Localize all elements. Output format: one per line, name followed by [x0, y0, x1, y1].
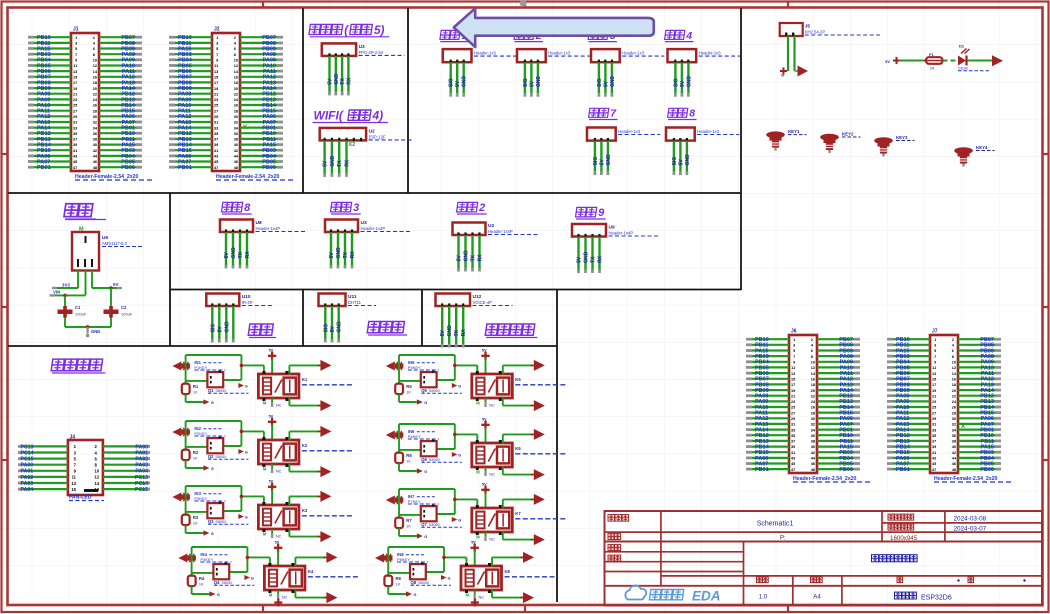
- ch4 wire to NO output port: [295, 557, 326, 566]
- svg-text:15: 15: [932, 377, 936, 381]
- ch8 output port arrow COM: [520, 592, 534, 603]
- svg-text:25: 25: [932, 406, 936, 410]
- svg-text:19: 19: [73, 87, 77, 91]
- header 红外 (1x4): [206, 294, 271, 343]
- svg-text:5V: 5V: [323, 160, 329, 167]
- svg-text:1: 1: [934, 338, 936, 342]
- ch2 resistor R2: [182, 450, 199, 461]
- ch6 relay pin stub NC: [476, 467, 495, 477]
- wire cap2 branch: [110, 288, 112, 308]
- label 舵机2: [514, 30, 543, 42]
- svg-text:S8050: S8050: [429, 458, 440, 462]
- svg-text:Header-1x3: Header-1x3: [697, 129, 720, 134]
- label 风扇灯带: [51, 359, 105, 373]
- svg-text:IR-4P: IR-4P: [242, 300, 253, 305]
- svg-text:G: G: [245, 384, 248, 388]
- ch1 transistor Q1: [207, 371, 248, 394]
- svg-text:Header-1x4P: Header-1x4P: [609, 231, 634, 236]
- ch7 relay K7: [472, 505, 513, 535]
- svg-text:45: 45: [214, 160, 218, 164]
- svg-text:DHT11: DHT11: [348, 300, 362, 305]
- net tag K (green): [243, 125, 248, 131]
- header 温湿度 (1x3): [319, 294, 377, 343]
- svg-text:RX: RX: [461, 329, 467, 337]
- svg-text:26: 26: [952, 406, 956, 410]
- ch4 power flag 5V: [274, 540, 282, 566]
- ch4 transistor Q4: [213, 563, 254, 586]
- ch5 wire resistor to ground: [399, 394, 417, 402]
- svg-text:RX: RX: [245, 251, 251, 259]
- ch3 wire to NO output port: [289, 496, 320, 505]
- svg-text:46: 46: [952, 462, 956, 466]
- svg-text:PB06: PB06: [980, 467, 994, 473]
- ch1 relay K1: [258, 371, 299, 401]
- svg-text:38: 38: [952, 440, 956, 444]
- label 舵机7: [589, 108, 618, 120]
- svg-text:G: G: [245, 450, 248, 454]
- svg-text:28: 28: [93, 109, 97, 113]
- svg-text:K: K: [243, 125, 248, 131]
- svg-text:40: 40: [93, 143, 97, 147]
- ch1 value label K1 SRD-05VDC: [302, 377, 353, 385]
- ch2 wire to COM output port: [289, 464, 320, 472]
- connector J7 (2x20 header): [887, 329, 1012, 483]
- svg-text:15: 15: [214, 76, 218, 80]
- header P8 舵机8 (1x3): [666, 128, 739, 176]
- svg-text:39: 39: [73, 143, 77, 147]
- ch7 input port flag IN7: [386, 496, 404, 505]
- label 红外: [248, 324, 276, 338]
- port arrow VCC out: [992, 55, 1003, 66]
- label 串口9: [576, 207, 606, 219]
- title label 审批: [608, 555, 621, 561]
- svg-text:15: 15: [73, 76, 77, 80]
- svg-text:G: G: [211, 532, 214, 536]
- svg-text:NC: NC: [489, 538, 495, 542]
- button SW1: [766, 129, 806, 151]
- svg-text:J6: J6: [791, 329, 797, 335]
- svg-text:13: 13: [214, 70, 218, 74]
- ch5 wire to NO output port: [503, 365, 534, 374]
- svg-text:S8050: S8050: [418, 581, 429, 585]
- svg-text:GND: GND: [606, 154, 612, 166]
- title label 审核: [608, 545, 621, 551]
- svg-text:TX: TX: [337, 160, 343, 167]
- svg-text:17: 17: [214, 81, 218, 85]
- ch3 resistor R3: [182, 515, 199, 526]
- svg-text:GND: GND: [224, 321, 230, 333]
- svg-text:P7KEY: P7KEY: [408, 499, 421, 504]
- ch6 junction: [453, 433, 457, 437]
- svg-text:32: 32: [234, 121, 238, 125]
- ch2 ground flag: [203, 465, 214, 471]
- button SW3: [874, 135, 914, 157]
- svg-text:100uF: 100uF: [121, 312, 133, 317]
- svg-text:5V: 5V: [440, 330, 446, 337]
- ch8 wire to COM output port: [492, 590, 523, 598]
- ch2 wire to NO output port: [289, 431, 320, 440]
- svg-text:1: 1: [793, 338, 795, 342]
- svg-text:Header-1x3: Header-1x3: [474, 51, 497, 56]
- net flag 5V and wire: [885, 57, 926, 64]
- svg-text:G: G: [211, 401, 214, 405]
- svg-text:8: 8: [811, 355, 813, 359]
- ch6 wire resistor to ground: [399, 463, 417, 471]
- svg-text:10: 10: [952, 361, 956, 365]
- ch1 junction: [240, 364, 244, 368]
- ch8 resistor R8: [384, 576, 401, 587]
- ch4 input port flag IN4: [178, 554, 196, 563]
- svg-text:Header-Female-2.54_2x20: Header-Female-2.54_2x20: [75, 174, 139, 180]
- ch1 power flag 5V: [268, 348, 276, 374]
- ch4 wire input to base/collector network: [192, 547, 270, 576]
- label 舵机4: [665, 30, 694, 42]
- svg-text:SIG: SIG: [449, 78, 455, 87]
- title label 修改日期: [888, 524, 914, 530]
- svg-text:13: 13: [73, 70, 77, 74]
- svg-text:47: 47: [932, 468, 936, 472]
- svg-text:38: 38: [811, 440, 815, 444]
- svg-text:M: M: [476, 535, 480, 540]
- net tag X (green): [961, 424, 965, 430]
- regulator U6 AMS1117: [72, 227, 142, 271]
- svg-text:P:: P:: [780, 536, 786, 542]
- svg-text:38: 38: [234, 138, 238, 142]
- ch3 power flag 5V: [268, 479, 276, 505]
- title description 模块名称: [872, 555, 918, 562]
- fuse F1: [924, 52, 945, 71]
- svg-text:FPC-4P-2.54: FPC-4P-2.54: [359, 50, 384, 55]
- ch8 wire input to base/collector network: [388, 547, 466, 576]
- svg-text:43: 43: [932, 457, 936, 461]
- svg-text:PC13: PC13: [135, 475, 148, 481]
- svg-text:13: 13: [71, 481, 76, 486]
- svg-text:Header-1x4P: Header-1x4P: [256, 226, 281, 231]
- svg-text:NC: NC: [276, 404, 282, 408]
- svg-text:12: 12: [93, 64, 97, 68]
- svg-text:5: 5: [793, 349, 795, 353]
- svg-text:Header-1x3: Header-1x3: [699, 51, 722, 56]
- title block grid: [605, 511, 1043, 606]
- svg-text:Q3: Q3: [208, 519, 214, 524]
- svg-text:PA02: PA02: [21, 475, 34, 481]
- svg-text:GND: GND: [584, 251, 590, 263]
- svg-text:AMS1117-5.0: AMS1117-5.0: [102, 241, 128, 246]
- ch1 resistor R1: [182, 384, 199, 395]
- svg-text:39: 39: [791, 445, 795, 449]
- title date modified: [954, 526, 987, 533]
- svg-text:5V: 5V: [328, 78, 334, 85]
- svg-text:1.0: 1.0: [759, 594, 768, 601]
- title label 设计: [608, 534, 621, 540]
- svg-text:4: 4: [685, 30, 692, 42]
- svg-text:P6KEY: P6KEY: [408, 434, 421, 439]
- ch6 output port arrow COM: [531, 469, 545, 480]
- svg-text:S8050: S8050: [215, 455, 226, 459]
- svg-text:18: 18: [93, 81, 97, 85]
- svg-text:43: 43: [214, 155, 218, 159]
- svg-text:K1: K1: [302, 377, 308, 382]
- ch8 ground flag: [406, 591, 417, 597]
- svg-text:G: G: [414, 593, 417, 597]
- svg-text:20: 20: [93, 87, 97, 91]
- svg-text:NC: NC: [479, 596, 485, 600]
- svg-text:P3KEY: P3KEY: [194, 496, 207, 501]
- label WIFI(串口4): [313, 109, 388, 123]
- svg-text:27: 27: [932, 411, 936, 415]
- svg-text:GND: GND: [685, 154, 691, 166]
- svg-text:SIG: SIG: [523, 78, 529, 87]
- svg-text:R1: R1: [193, 384, 199, 389]
- svg-text:11: 11: [791, 366, 795, 370]
- ch3 output port arrow NO: [317, 491, 331, 502]
- ch8 value label K8 SRD-05VDC: [505, 569, 556, 577]
- svg-text:26: 26: [93, 104, 97, 108]
- ch4 wire resistor to ground: [192, 586, 210, 594]
- svg-text:1K: 1K: [193, 390, 198, 394]
- svg-text:30: 30: [234, 115, 238, 119]
- svg-text:8: 8: [234, 53, 236, 57]
- svg-text:6: 6: [234, 47, 236, 51]
- svg-text:GND: GND: [447, 325, 453, 337]
- svg-text:GND: GND: [334, 73, 340, 85]
- svg-text:C2: C2: [121, 305, 127, 310]
- ch1 wire input to base/collector network: [186, 355, 264, 384]
- ch7 resistor R7: [395, 518, 412, 529]
- battery header J5 (1x2) with GND flag and port arrow: [780, 23, 880, 78]
- ch3 input port flag IN3: [172, 493, 190, 502]
- label 串口8: [222, 202, 252, 214]
- ch5 output port arrow COM: [531, 400, 545, 411]
- ch4 output port arrow COM: [323, 592, 337, 603]
- svg-text:RX: RX: [346, 77, 352, 85]
- svg-text:KEY4: KEY4: [976, 145, 988, 150]
- svg-text:PC15: PC15: [21, 457, 34, 463]
- wire fuse to diode: [943, 60, 959, 62]
- ch3 junction: [240, 495, 244, 499]
- ch8 relay pin stub NC: [466, 590, 485, 600]
- connector J1 (2x20 header): [28, 27, 153, 181]
- svg-text:G: G: [448, 576, 451, 580]
- ch7 wire to NO output port: [503, 499, 534, 508]
- svg-text:16: 16: [952, 377, 956, 381]
- ch4 resistor R4: [188, 576, 205, 587]
- svg-text:R4: R4: [199, 576, 205, 581]
- svg-text:G: G: [781, 74, 784, 78]
- svg-text:35: 35: [932, 434, 936, 438]
- svg-text:NC: NC: [276, 470, 282, 474]
- svg-text:RX: RX: [598, 255, 604, 263]
- svg-text:19: 19: [791, 389, 795, 393]
- title value P: [780, 536, 786, 542]
- label 稳压: [64, 204, 106, 220]
- svg-text:K2: K2: [302, 443, 308, 448]
- header 串口3 (1x4): [325, 220, 411, 269]
- wire diode to port: [967, 60, 992, 62]
- ch6 resistor R6: [395, 453, 412, 464]
- svg-text:GND: GND: [231, 247, 237, 259]
- title value 1600x945: [890, 535, 918, 542]
- svg-text:GND: GND: [686, 76, 692, 88]
- svg-text:5V: 5V: [217, 326, 223, 333]
- svg-text:6: 6: [93, 47, 95, 51]
- svg-text:G: G: [424, 535, 427, 539]
- title label 尺寸: [811, 577, 823, 583]
- svg-text:11: 11: [73, 64, 77, 68]
- svg-text:GND: GND: [464, 250, 470, 262]
- svg-text:3: 3: [75, 42, 77, 46]
- ch7 output port arrow NO: [531, 494, 545, 505]
- svg-text:PA04: PA04: [135, 469, 148, 475]
- svg-text:37: 37: [791, 440, 795, 444]
- svg-text:3: 3: [793, 344, 795, 348]
- svg-text:PB06: PB06: [839, 467, 853, 473]
- svg-text:Header-Female-2.54_2x20: Header-Female-2.54_2x20: [934, 476, 998, 482]
- svg-text:48: 48: [952, 468, 956, 472]
- svg-text:2: 2: [478, 202, 485, 214]
- ch5 output port arrow NO: [531, 360, 545, 371]
- svg-text:32: 32: [93, 121, 97, 125]
- svg-text:PA01: PA01: [21, 469, 34, 475]
- title label 项目名: [608, 515, 629, 522]
- svg-text:Header-1x3: Header-1x3: [618, 129, 641, 134]
- svg-text:WIFI(: WIFI(: [314, 109, 345, 123]
- svg-text:41: 41: [73, 149, 77, 153]
- svg-text:48: 48: [811, 468, 815, 472]
- svg-text:6: 6: [952, 349, 954, 353]
- ch8 relay K8: [461, 563, 502, 593]
- svg-text:Header-Female-2.54_2x20: Header-Female-2.54_2x20: [793, 476, 857, 482]
- svg-text:39: 39: [214, 143, 218, 147]
- svg-text:J2: J2: [214, 27, 220, 33]
- svg-text:TX: TX: [454, 329, 460, 336]
- svg-text:GND: GND: [610, 76, 616, 88]
- title value size A4: [813, 594, 821, 601]
- ch2 junction: [240, 430, 244, 434]
- ch1 wire to COM output port: [289, 398, 320, 406]
- svg-text:16: 16: [93, 76, 97, 80]
- section divider lines: [8, 8, 741, 602]
- ch2 value label K2 SRD-05VDC: [302, 443, 353, 451]
- svg-text:KEY3: KEY3: [896, 135, 908, 140]
- svg-text:7: 7: [75, 53, 77, 57]
- svg-text:26: 26: [811, 406, 815, 410]
- svg-text:5): 5): [374, 23, 385, 37]
- svg-text:5V: 5V: [678, 159, 684, 166]
- svg-text:19: 19: [214, 87, 218, 91]
- ground: [86, 327, 101, 337]
- svg-text:25: 25: [73, 104, 77, 108]
- svg-text:36: 36: [811, 434, 815, 438]
- svg-text:5V: 5V: [529, 80, 535, 87]
- svg-text:42: 42: [234, 149, 238, 153]
- svg-text:SIG: SIG: [673, 78, 679, 87]
- ch7 net label IN7: [408, 494, 439, 504]
- svg-text:21: 21: [932, 394, 936, 398]
- svg-text:25: 25: [791, 406, 795, 410]
- svg-text:G: G: [217, 593, 220, 597]
- svg-text:5V: 5V: [455, 80, 461, 87]
- ch7 wire resistor to ground: [399, 528, 417, 536]
- ch7 power flag 5V: [481, 482, 489, 508]
- svg-text:22: 22: [811, 394, 815, 398]
- svg-text:S8050: S8050: [429, 523, 440, 527]
- svg-text:12: 12: [952, 366, 956, 370]
- ch5 ground flag: [417, 399, 428, 405]
- svg-text:10: 10: [234, 59, 238, 63]
- svg-text:1K: 1K: [406, 524, 411, 528]
- header P7 舵机7 (1x3): [587, 128, 660, 176]
- svg-text:42: 42: [811, 451, 815, 455]
- svg-text:D1: D1: [959, 44, 965, 49]
- svg-text:M: M: [466, 593, 470, 598]
- ch3 wire to COM output port: [289, 529, 320, 537]
- svg-text:PA00: PA00: [21, 463, 34, 469]
- svg-text:3: 3: [934, 344, 936, 348]
- svg-text:G: G: [458, 518, 461, 522]
- svg-text:46: 46: [234, 160, 238, 164]
- svg-text:P1KEY: P1KEY: [194, 365, 207, 370]
- ch6 wire input to base/collector network: [399, 424, 477, 453]
- svg-text:2A: 2A: [930, 66, 935, 71]
- svg-text:TX: TX: [340, 78, 346, 85]
- svg-text:29: 29: [932, 417, 936, 421]
- svg-text:18: 18: [952, 383, 956, 387]
- svg-text:33: 33: [73, 126, 77, 130]
- svg-text:30: 30: [952, 417, 956, 421]
- svg-text:9: 9: [75, 59, 77, 63]
- svg-text:25: 25: [214, 104, 218, 108]
- svg-text:11: 11: [72, 475, 77, 480]
- svg-text:2024-03-08: 2024-03-08: [954, 516, 987, 523]
- svg-text:PA02: PA02: [135, 457, 148, 463]
- svg-text:12: 12: [234, 64, 238, 68]
- ch8 power flag below relay: [471, 599, 479, 607]
- svg-text:G: G: [251, 576, 254, 580]
- ch2 net label IN2: [194, 426, 225, 436]
- svg-text:TX: TX: [343, 251, 349, 258]
- ch5 resistor R5: [395, 384, 412, 395]
- svg-text:9: 9: [598, 207, 605, 219]
- header U2 WIFI (1x6): [320, 128, 413, 177]
- ch6 net label IN6: [408, 429, 439, 439]
- svg-text:K7: K7: [515, 511, 521, 516]
- svg-text:2: 2: [93, 36, 95, 40]
- ch5 input port flag IN5: [386, 362, 404, 371]
- svg-text:18: 18: [811, 383, 815, 387]
- svg-text:9: 9: [216, 59, 218, 63]
- ch2 power flag 5V: [268, 414, 276, 440]
- ch7 output port arrow COM: [531, 534, 545, 545]
- svg-text:Q1: Q1: [208, 388, 214, 393]
- svg-text:42: 42: [952, 451, 956, 455]
- svg-text:J7: J7: [932, 329, 938, 335]
- svg-text:8: 8: [689, 108, 695, 120]
- ch6 wire to NO output port: [503, 434, 534, 443]
- ch2 transistor Q2: [207, 437, 248, 460]
- svg-text:5V: 5V: [603, 80, 609, 87]
- ch8 output port arrow NO: [520, 552, 534, 563]
- header 串口2 (1x4): [453, 223, 539, 272]
- svg-text:23: 23: [932, 400, 936, 404]
- svg-text:PB06: PB06: [262, 165, 276, 171]
- svg-text:22: 22: [952, 394, 956, 398]
- svg-text:M: M: [263, 532, 267, 537]
- svg-text:5V: 5V: [329, 252, 335, 259]
- svg-text:5: 5: [216, 47, 218, 51]
- svg-text:28: 28: [952, 411, 956, 415]
- svg-text:C1: C1: [75, 305, 81, 310]
